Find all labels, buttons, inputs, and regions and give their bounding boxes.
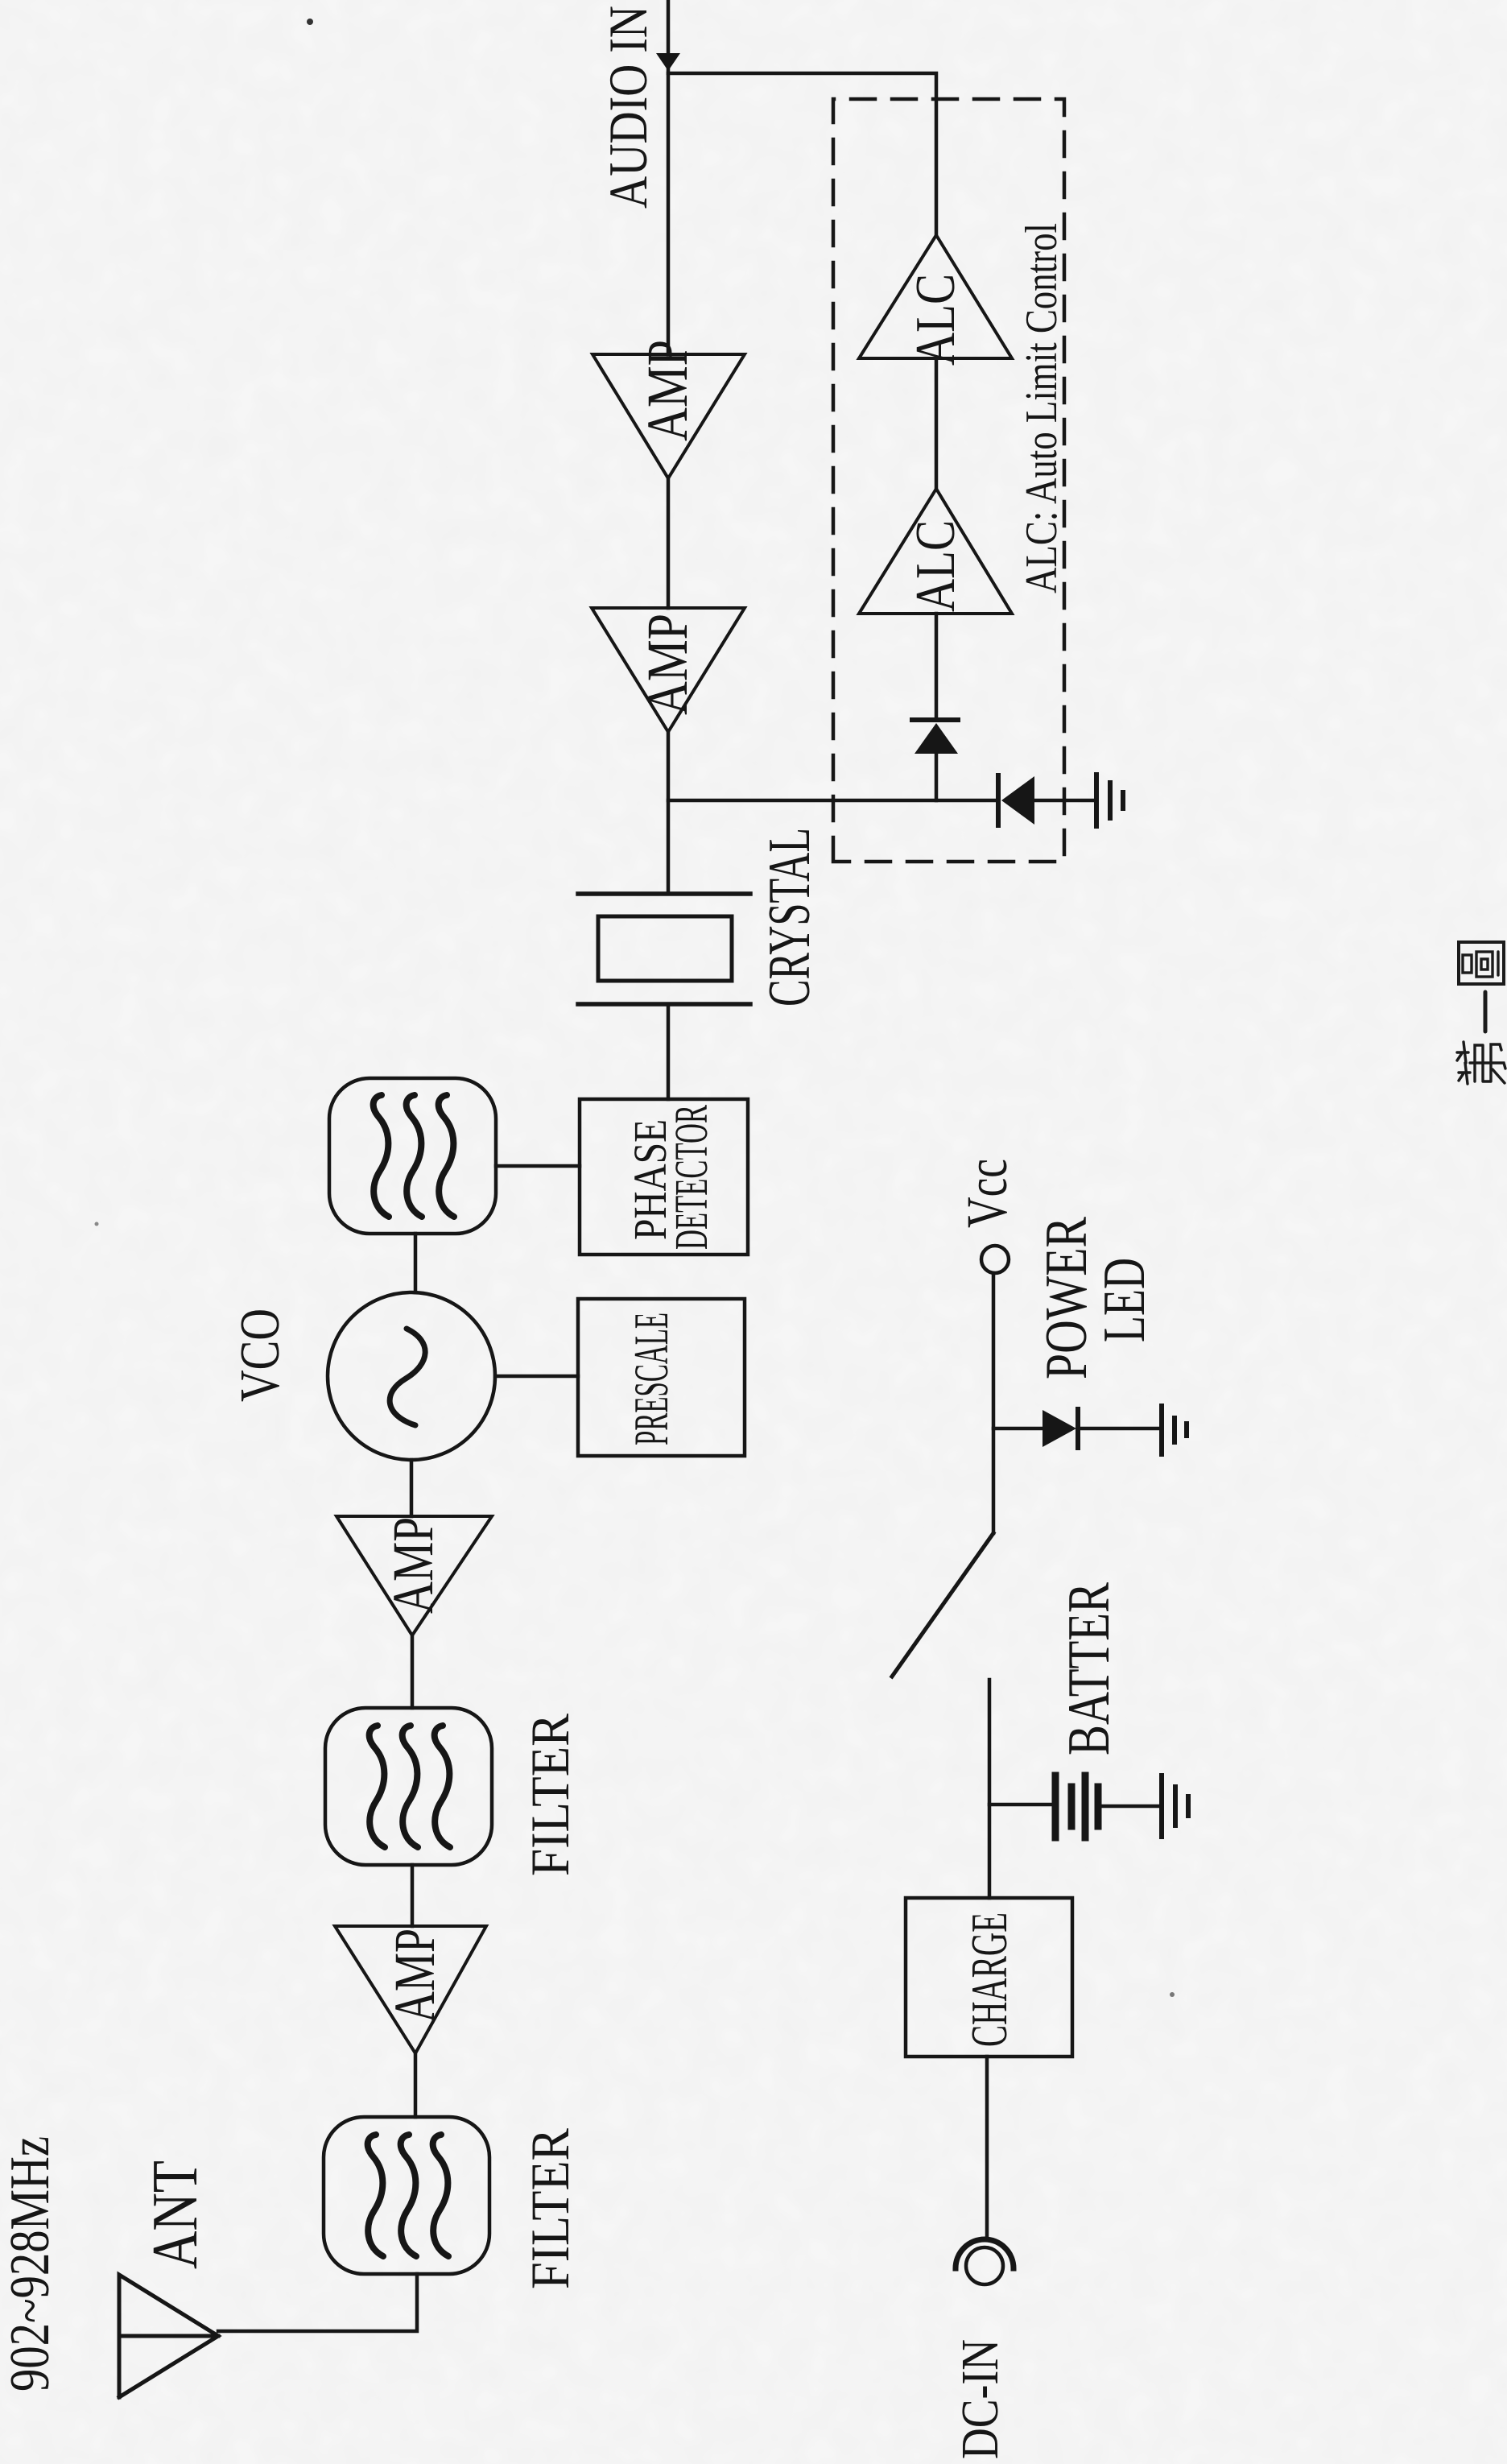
svg-text:AMP: AMP <box>381 1517 445 1614</box>
svg-text:FILTER: FILTER <box>519 1713 580 1876</box>
svg-text:CHARGE: CHARGE <box>960 1912 1018 2047</box>
svg-text:ALC: ALC <box>905 274 967 366</box>
svg-text:AUDIO IN: AUDIO IN <box>597 6 659 209</box>
svg-text:ALC: ALC <box>905 520 967 612</box>
svg-text:BATTER: BATTER <box>1056 1582 1122 1755</box>
svg-text:VCO: VCO <box>229 1308 291 1402</box>
svg-text:Vcc: Vcc <box>955 1159 1019 1228</box>
svg-text:AMP: AMP <box>635 340 700 441</box>
svg-text:DC-IN: DC-IN <box>951 2339 1009 2459</box>
svg-text:ALC: Auto Limit Control: ALC: Auto Limit Control <box>1017 223 1067 593</box>
svg-text:902~928MHz: 902~928MHz <box>0 2136 61 2392</box>
svg-text:PRESCALE: PRESCALE <box>625 1313 678 1445</box>
svg-text:POWER: POWER <box>1034 1216 1100 1379</box>
svg-text:LED: LED <box>1092 1258 1158 1342</box>
svg-text:AMP: AMP <box>635 614 700 715</box>
svg-text:ANT: ANT <box>140 2160 211 2269</box>
svg-text:FILTER: FILTER <box>519 2127 580 2289</box>
svg-text:DETECTOR: DETECTOR <box>665 1105 717 1250</box>
svg-text:AMP: AMP <box>382 1929 447 2023</box>
svg-text:CRYSTAL: CRYSTAL <box>757 828 823 1007</box>
